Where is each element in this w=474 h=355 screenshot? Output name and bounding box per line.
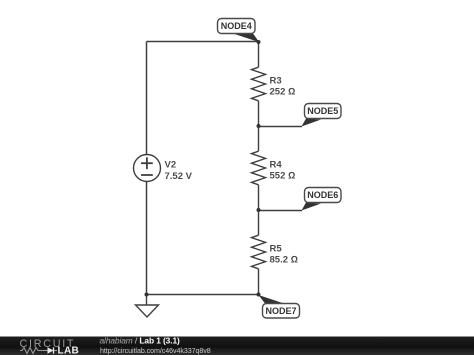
wire right vertical top lead [258, 42, 260, 68]
logo diode [43, 347, 57, 353]
voltage source V2 [134, 155, 161, 182]
wire R4 to node6 [258, 185, 260, 210]
value label R4 552 ohm [270, 159, 296, 181]
wire node6 to R5 [258, 210, 260, 235]
value label V2 7.52 V [165, 160, 193, 182]
svg-text:alhabiam / Lab 1 (3.1): alhabiam / Lab 1 (3.1) [100, 336, 181, 346]
ground [136, 295, 159, 318]
junction dot node4 [257, 40, 261, 44]
wire left vertical lower [146, 182, 148, 295]
svg-text:85.2 Ω: 85.2 Ω [270, 255, 298, 266]
svg-text:LAB: LAB [58, 346, 80, 355]
logo resistor zigzag [20, 348, 43, 354]
value label R3 252 ohm [270, 75, 296, 97]
resistor R4 [252, 151, 266, 185]
wire R5 to node7 [258, 269, 260, 295]
svg-text:7.52 V: 7.52 V [165, 171, 193, 182]
junction dot node7 [257, 293, 261, 297]
wire top horizontal (node4 net) [147, 41, 259, 43]
junction dot node6 [257, 208, 261, 212]
resistor R5 [252, 235, 266, 269]
svg-text:NODE4: NODE4 [221, 21, 252, 31]
svg-text:NODE6: NODE6 [307, 190, 338, 200]
wire R3 to node5 [258, 101, 260, 126]
junction dot node5 [257, 124, 261, 128]
wire node5 stub [259, 126, 303, 128]
svg-text:NODE5: NODE5 [307, 106, 338, 116]
node NODE5 label [302, 104, 342, 127]
svg-text:NODE7: NODE7 [265, 306, 296, 316]
value label R5 85.2 ohm [270, 243, 298, 265]
node NODE4 label [218, 19, 260, 43]
wire bottom horizontal (node7 net) [147, 294, 259, 296]
svg-text:R3: R3 [270, 75, 282, 86]
resistor R3 [252, 67, 266, 101]
svg-text:252 Ω: 252 Ω [270, 87, 296, 98]
svg-text:http://circuitlab.com/c46v4k33: http://circuitlab.com/c46v4k337q8v8 [100, 347, 211, 355]
svg-text:552 Ω: 552 Ω [270, 171, 296, 182]
junction dot ground [145, 293, 149, 297]
node NODE6 label [302, 188, 342, 211]
node NODE7 label [259, 295, 300, 318]
svg-text:R5: R5 [270, 243, 283, 254]
wire left vertical upper [146, 42, 148, 155]
wire node6 stub [259, 210, 303, 212]
footer bar [0, 337, 474, 355]
wire node5 to R4 [258, 126, 260, 151]
svg-text:V2: V2 [165, 160, 177, 171]
svg-text:R4: R4 [270, 159, 283, 170]
